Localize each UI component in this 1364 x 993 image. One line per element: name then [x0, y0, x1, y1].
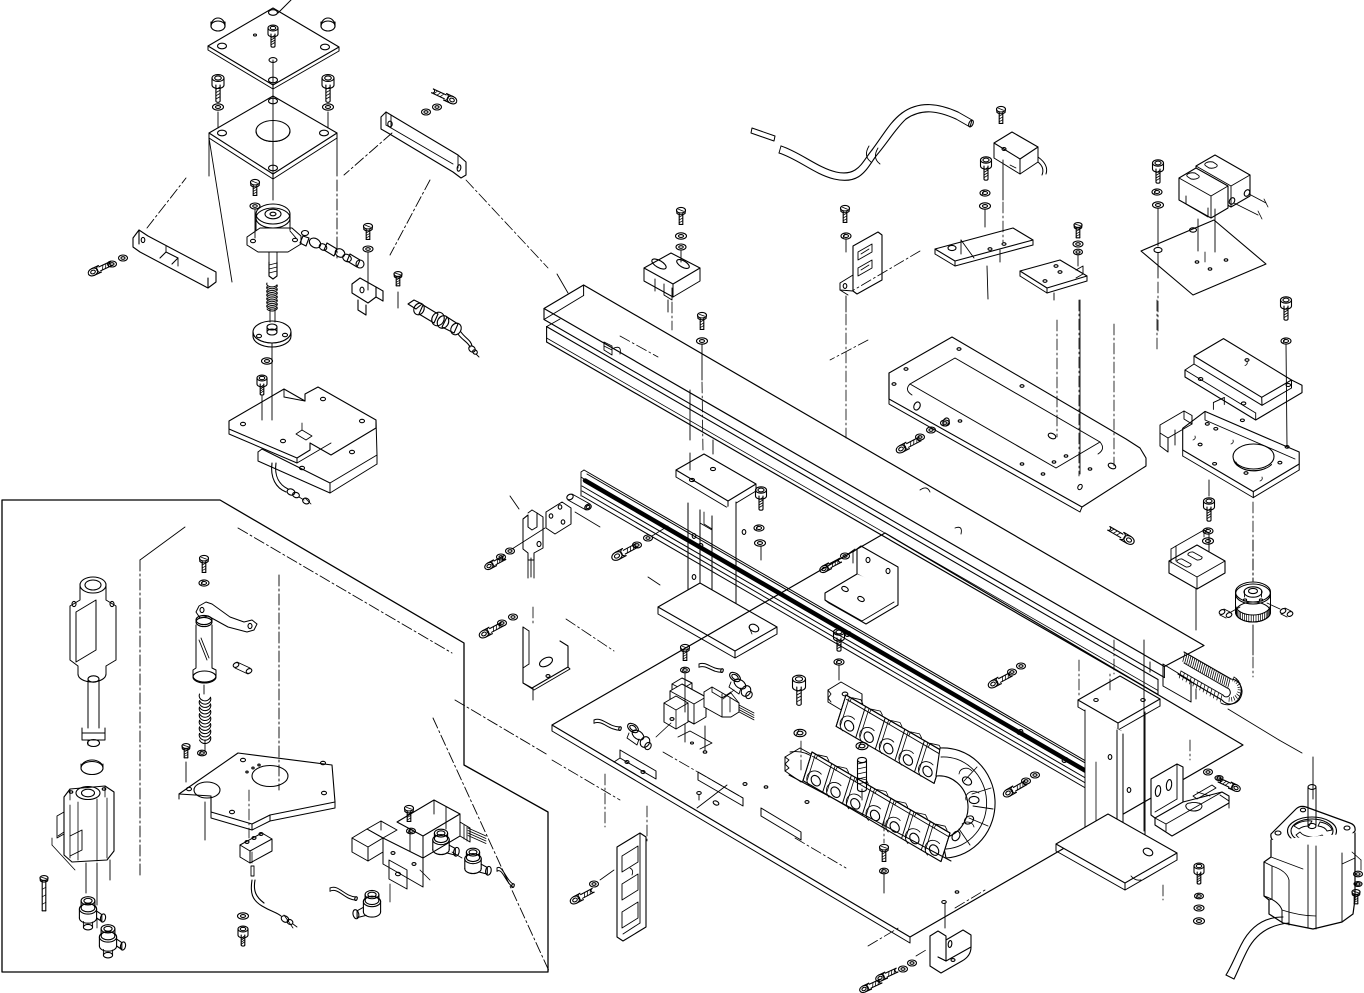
- wire: [760, 546, 762, 560]
- wire: [861, 789, 863, 800]
- washer: [262, 358, 273, 364]
- wire: [984, 209, 986, 227]
- beam BM1 top face: [544, 285, 1204, 667]
- valve V3: [672, 678, 692, 700]
- spring SP2: [199, 694, 210, 701]
- hose: [699, 663, 722, 669]
- wire: [1198, 887, 1200, 893]
- post PS1 base: [658, 583, 777, 651]
- wire: [680, 250, 682, 262]
- wire: [1286, 344, 1287, 446]
- bracket B6: [1155, 784, 1229, 836]
- wire: [336, 138, 338, 176]
- wire: [139, 560, 141, 875]
- cable chain upper tab: [828, 682, 862, 714]
- wire: [868, 927, 900, 946]
- strap: [196, 602, 257, 632]
- block V1: [240, 833, 272, 851]
- wire: [838, 665, 840, 680]
- washer: [754, 525, 764, 531]
- washer: [363, 246, 373, 252]
- screw: [364, 223, 373, 229]
- post PS2 clip: [1113, 727, 1121, 746]
- cable C3: [751, 128, 775, 141]
- post PS1 column: [688, 502, 736, 614]
- wire: [800, 741, 802, 770]
- screw: [875, 973, 886, 983]
- screw: [1002, 787, 1014, 798]
- wire: [1077, 255, 1079, 266]
- screw: [1074, 223, 1082, 228]
- washer: [899, 966, 908, 972]
- wire: [701, 344, 703, 380]
- motor M1 cable: [1226, 917, 1283, 975]
- hose: [497, 867, 513, 884]
- screw: [987, 678, 999, 689]
- plate P9: [1141, 220, 1266, 295]
- wire: [604, 774, 606, 827]
- washer: [841, 233, 851, 239]
- strip ST1: [617, 833, 646, 941]
- bracket B9: [857, 546, 898, 595]
- screw: [756, 487, 767, 493]
- fitting T2: [101, 925, 115, 933]
- screw: [212, 75, 224, 82]
- screw: [677, 207, 686, 213]
- plate P7: [935, 227, 1032, 266]
- screw: [268, 25, 278, 31]
- wire: [532, 607, 534, 625]
- wire: [1143, 640, 1145, 831]
- washer: [980, 190, 990, 196]
- rod: [269, 309, 271, 322]
- washer: [1073, 241, 1083, 247]
- washer: [108, 261, 117, 267]
- washer: [198, 750, 207, 756]
- washer: [880, 868, 889, 874]
- wire: [272, 60, 274, 200]
- post PS1 top plate: [676, 454, 756, 501]
- wire: [1157, 253, 1159, 278]
- screw: [446, 95, 458, 106]
- cylinder CY2: [64, 786, 114, 862]
- wire: [845, 239, 847, 252]
- post PS2 base: [1056, 814, 1177, 883]
- washer: [1203, 528, 1213, 534]
- pin: [232, 662, 239, 669]
- inset box frame: [2, 500, 548, 972]
- screw: [610, 550, 623, 562]
- wire: [684, 724, 686, 742]
- screw: [405, 805, 414, 811]
- wire: [848, 549, 855, 554]
- wire: [147, 178, 186, 228]
- washer: [633, 542, 642, 548]
- plate P3: [253, 321, 291, 343]
- box S3: [994, 132, 1038, 174]
- wire: [433, 718, 549, 971]
- cable chain upper run: [836, 695, 944, 783]
- screw: [793, 675, 806, 683]
- screw: [1204, 498, 1215, 504]
- plate P6: [179, 753, 335, 824]
- cylinder CY1: [80, 577, 106, 593]
- wire: [209, 138, 232, 282]
- screw: [834, 629, 845, 635]
- washer: [498, 620, 507, 626]
- plate P4: [229, 387, 376, 458]
- wire: [955, 890, 985, 908]
- rail RL1: [584, 470, 1103, 771]
- fitting: [302, 231, 309, 236]
- washer: [433, 104, 442, 110]
- washer: [834, 659, 844, 665]
- pin: [251, 866, 254, 876]
- screw: [569, 894, 581, 905]
- wire: [1228, 709, 1279, 740]
- washer: [1204, 769, 1213, 775]
- screw: [182, 744, 190, 749]
- wire: [600, 870, 614, 880]
- washer: [794, 729, 806, 736]
- motor M1 body: [1264, 833, 1355, 929]
- wire: [1208, 480, 1210, 496]
- screw: [819, 564, 830, 574]
- screw: [238, 926, 248, 932]
- leader: [278, 0, 291, 13]
- wire: [552, 760, 620, 800]
- wire: [512, 528, 545, 549]
- screw: [322, 75, 334, 82]
- wire: [254, 209, 256, 238]
- fitting: [434, 829, 447, 837]
- washer: [199, 580, 209, 586]
- wire: [652, 526, 668, 536]
- washer: [497, 554, 506, 560]
- set screw: [1218, 609, 1225, 616]
- bracket B8: [930, 931, 946, 961]
- rod: [268, 252, 270, 262]
- wire: [1352, 852, 1361, 860]
- screw: [251, 179, 260, 185]
- wire: [614, 347, 620, 354]
- screw bolt: [858, 757, 867, 762]
- plate P8: [1020, 259, 1087, 292]
- wire: [955, 527, 961, 534]
- washer: [697, 338, 708, 344]
- screw: [880, 844, 889, 850]
- wire: [455, 700, 548, 755]
- wire: [251, 852, 253, 864]
- screw: [1352, 890, 1360, 895]
- valve V2: [352, 829, 383, 847]
- motor M1 face: [1288, 817, 1337, 845]
- post PS2 top plate: [1078, 676, 1160, 723]
- wire: [203, 685, 205, 694]
- plate P10 cover: [1194, 339, 1292, 398]
- screw long: [85, 774, 98, 776]
- wire: [944, 903, 946, 928]
- wire: [204, 802, 206, 840]
- tube: [193, 625, 196, 676]
- screw: [1281, 297, 1292, 303]
- cable chain lower edge: [785, 771, 805, 785]
- washer: [681, 667, 690, 673]
- screw: [997, 106, 1006, 112]
- wire: [389, 884, 391, 902]
- motor M1 shaft: [1307, 787, 1309, 825]
- plate P12: [546, 502, 571, 534]
- fitting: [728, 670, 742, 683]
- bracket B1: [381, 112, 466, 178]
- post PS2 column: [1085, 710, 1123, 871]
- screw: [895, 443, 907, 454]
- screw: [1122, 534, 1135, 546]
- frame F1: [889, 337, 1146, 507]
- wire: [1220, 795, 1229, 801]
- screw: [1153, 160, 1164, 166]
- wire: [1189, 740, 1191, 760]
- screw: [484, 561, 495, 571]
- bracket B3: [352, 278, 376, 303]
- wire: [344, 133, 392, 175]
- rod R1: [87, 679, 89, 728]
- screw: [257, 375, 267, 381]
- washer: [323, 104, 334, 110]
- washer: [407, 828, 416, 834]
- wire: [1078, 660, 1080, 697]
- plate P13 base: [552, 533, 1243, 937]
- wire: [1056, 320, 1058, 437]
- wire: [96, 918, 98, 928]
- sensor S1: [408, 300, 422, 309]
- wire: [85, 863, 87, 893]
- bracket B5: [521, 625, 566, 694]
- wire: [271, 343, 273, 420]
- belt BT1: [1178, 652, 1242, 704]
- block P11: [1183, 411, 1300, 491]
- dome nut: [211, 21, 225, 31]
- washer: [590, 881, 599, 887]
- sensor S2: [644, 253, 700, 297]
- screw: [681, 644, 690, 650]
- dome nut: [321, 21, 335, 31]
- motor M1 flange: [1271, 806, 1355, 858]
- wire: [208, 138, 210, 176]
- hose: [330, 887, 356, 897]
- fitting T1: [81, 897, 95, 905]
- washer: [1195, 893, 1204, 899]
- plate P1 top cover: [208, 8, 339, 85]
- cable C2: [251, 880, 281, 916]
- plate P5: [258, 420, 377, 483]
- washer: [676, 233, 687, 239]
- set screw: [1279, 608, 1286, 615]
- beam BM1 near face: [543, 309, 545, 320]
- screw: [87, 267, 99, 278]
- wire: [1197, 219, 1199, 251]
- hose: [594, 719, 620, 727]
- tab: [604, 342, 612, 355]
- pin: [566, 493, 574, 501]
- screw: [698, 312, 707, 318]
- wire: [883, 874, 885, 893]
- wire: [466, 180, 548, 268]
- plate P2: [209, 96, 337, 174]
- wire: [367, 252, 369, 290]
- beam BM1 slot: [1163, 664, 1191, 702]
- bearing unit U1: [256, 208, 290, 228]
- fitting: [466, 848, 479, 856]
- cable chain bend: [936, 748, 995, 858]
- sensor S4: [1196, 155, 1250, 207]
- washer: [1281, 338, 1291, 344]
- bracket B4: [853, 232, 882, 294]
- beam BM2: [546, 327, 548, 342]
- wires W2: [739, 705, 754, 713]
- wire: [566, 619, 614, 651]
- washer: [238, 913, 249, 919]
- screw: [1231, 783, 1242, 793]
- wire: [140, 527, 185, 560]
- wire: [1195, 589, 1197, 630]
- washer: [250, 203, 260, 209]
- washer: [1152, 189, 1162, 195]
- cable C1: [272, 463, 286, 492]
- fitting: [365, 890, 379, 898]
- sensor S5 fork: [523, 513, 543, 560]
- screw: [1194, 863, 1204, 869]
- washer: [841, 553, 850, 559]
- wire: [217, 112, 219, 128]
- wire: [397, 292, 399, 308]
- wire: [684, 673, 686, 712]
- wire: [987, 266, 988, 299]
- wire: [278, 575, 280, 790]
- screw: [841, 205, 850, 211]
- spring SP1: [267, 283, 277, 287]
- wire: [1157, 208, 1159, 246]
- wire: [1252, 540, 1254, 581]
- wire: [52, 845, 75, 870]
- pulley PU1: [1236, 602, 1271, 622]
- screw: [394, 272, 402, 277]
- wires W1: [468, 828, 486, 836]
- cap: [81, 762, 103, 775]
- screw: [859, 984, 870, 993]
- screw: [478, 628, 490, 639]
- wire: [1002, 160, 1004, 200]
- washer: [213, 104, 224, 110]
- washer: [1008, 669, 1017, 675]
- bracket B2: [133, 230, 216, 288]
- washer: [916, 434, 925, 440]
- washer: [1354, 871, 1363, 877]
- cable chain lower run: [803, 752, 950, 862]
- cable chain lower tab: [785, 748, 818, 782]
- fitting: [626, 721, 640, 734]
- wire: [238, 528, 452, 653]
- washer: [856, 742, 868, 749]
- bracket B7: [1169, 545, 1225, 589]
- screw: [981, 157, 992, 163]
- screw: [200, 555, 209, 561]
- washer: [1022, 778, 1031, 784]
